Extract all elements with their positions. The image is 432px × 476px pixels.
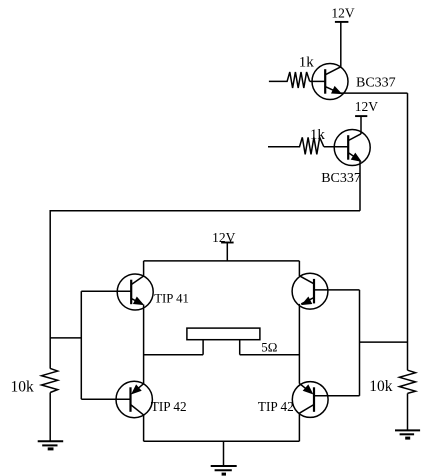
transistor Q2 BC337 (334, 130, 370, 166)
svg-text:12V: 12V (331, 6, 355, 21)
ground center (211, 466, 237, 474)
wire bus to Q5 base (81, 398, 130, 400)
wire bus to Q6 base (314, 395, 360, 397)
wire right junction to rail (360, 341, 408, 343)
wire right base bus (359, 290, 361, 396)
wire bus to Q3 base (81, 290, 131, 292)
svg-text:TIP 42: TIP 42 (258, 399, 294, 414)
load 5ohm body (187, 328, 260, 340)
svg-text:TIP 42: TIP 42 (151, 399, 187, 414)
transistor Q1 BC337 (312, 64, 348, 100)
transistor Q4 TIP41 (top right, mirrored) (292, 273, 328, 309)
svg-text:10k: 10k (369, 378, 393, 395)
svg-text:12V: 12V (355, 99, 379, 114)
power bar V1 (335, 21, 349, 23)
wire Q4 base to right bus (314, 289, 360, 291)
svg-text:BC337: BC337 (321, 171, 361, 186)
wire Q4 collector (298, 261, 300, 276)
wire Q3 emitter down (left output) (143, 305, 145, 384)
svg-text:TIP 41: TIP 41 (154, 292, 189, 306)
wire Q4 emitter down (right output) (298, 304, 300, 384)
transistor Q5 TIP42 (bottom left) (116, 381, 152, 417)
wire left base bus (80, 291, 82, 399)
power bar V2 (355, 115, 367, 117)
transistor Q3 TIP41 (top left) (117, 274, 153, 310)
power bar V3 (221, 242, 234, 244)
ground right (395, 430, 420, 438)
load 5ohm leg left (202, 340, 204, 355)
wire Q2 emitter down (359, 161, 361, 211)
wire Q3 collector (143, 261, 145, 276)
resistor R2 1k (268, 137, 324, 154)
wire Q1 emitter to right rail (340, 92, 408, 94)
wire left junction to base bus (50, 337, 81, 339)
wire top rail (144, 260, 300, 262)
wire bottom rail to center ground (223, 441, 225, 466)
ground left (38, 441, 64, 449)
wire mid rail right (240, 354, 300, 356)
wire mid rail left (144, 354, 204, 356)
wire R2 to Q2 base (324, 146, 349, 148)
resistor R4 10k (right) (399, 370, 415, 393)
wire Q5 collector down (143, 415, 145, 441)
wire R3 to ground (49, 393, 51, 442)
wire V3 to top rail (226, 243, 228, 261)
svg-text:5Ω: 5Ω (261, 340, 277, 355)
transistor Q6 TIP42 (bottom right, mirrored) (292, 382, 328, 418)
wire V1 to Q1 collector (340, 22, 342, 67)
svg-text:10k: 10k (11, 378, 35, 395)
resistor R3 10k (left) (42, 368, 58, 392)
wire right rail down (407, 93, 409, 370)
svg-text:1k: 1k (299, 54, 315, 70)
wire Q2 emitter across and down left side (50, 211, 360, 369)
wire R4 to ground (407, 393, 409, 430)
svg-text:BC337: BC337 (356, 76, 396, 91)
resistor R1 1k (269, 72, 310, 88)
svg-text:1k: 1k (310, 127, 326, 143)
wire Q6 collector down (298, 413, 300, 441)
wire R1 to Q1 base (310, 80, 326, 82)
wire bottom rail (144, 440, 300, 442)
wire V2 to Q2 collector (360, 116, 362, 134)
load 5ohm leg right (239, 340, 241, 355)
